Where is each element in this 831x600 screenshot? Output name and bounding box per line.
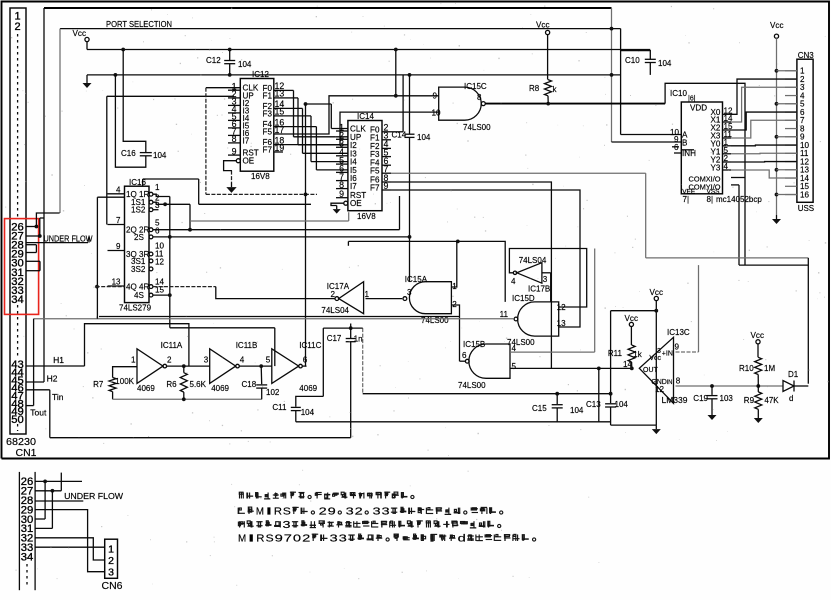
svg-text:d: d — [789, 394, 793, 403]
svg-text:1n: 1n — [354, 335, 363, 344]
svg-text:16V8: 16V8 — [251, 172, 270, 181]
svg-text:IC14: IC14 — [357, 112, 374, 121]
svg-text:1: 1 — [131, 356, 136, 365]
svg-text:H1: H1 — [53, 355, 64, 365]
svg-text:Vcc: Vcc — [751, 331, 765, 340]
svg-text:6: 6 — [674, 143, 679, 152]
svg-text:CN1: CN1 — [16, 448, 37, 459]
svg-text:R7: R7 — [93, 380, 104, 389]
svg-text:1k: 1k — [633, 350, 642, 359]
svg-text:104: 104 — [238, 60, 252, 69]
svg-text:M: M — [238, 533, 246, 545]
svg-text:Vcc: Vcc — [649, 355, 661, 362]
svg-text:8: 8 — [477, 93, 482, 102]
svg-text:74LS04: 74LS04 — [321, 306, 349, 315]
svg-text:74LS04: 74LS04 — [519, 256, 547, 265]
svg-text:2: 2 — [355, 506, 363, 518]
svg-text:9: 9 — [116, 242, 121, 251]
svg-text:3: 3 — [382, 506, 390, 518]
svg-text:Vcc: Vcc — [650, 288, 664, 297]
svg-text:R10: R10 — [739, 364, 754, 373]
svg-text:3: 3 — [204, 356, 209, 365]
svg-text:104: 104 — [615, 400, 629, 409]
svg-text:16: 16 — [800, 190, 810, 199]
svg-text:1M: 1M — [764, 364, 775, 373]
svg-text:C10: C10 — [625, 56, 640, 65]
svg-text:4069: 4069 — [211, 384, 229, 393]
svg-text:3: 3 — [407, 288, 412, 297]
svg-text:3: 3 — [283, 519, 291, 531]
svg-text:d: d — [458, 533, 466, 545]
svg-text:+IN: +IN — [662, 351, 673, 358]
svg-text:1: 1 — [155, 183, 160, 192]
svg-text:50: 50 — [11, 414, 24, 426]
svg-text:4: 4 — [511, 277, 516, 286]
svg-text:3: 3 — [339, 533, 347, 545]
svg-text:3: 3 — [346, 506, 354, 518]
svg-text:S: S — [266, 533, 274, 545]
svg-text:9: 9 — [432, 92, 437, 101]
svg-text:LM339: LM339 — [662, 395, 688, 405]
svg-text:D1: D1 — [788, 370, 799, 379]
svg-text:C18: C18 — [242, 380, 257, 389]
svg-text:34: 34 — [21, 551, 34, 563]
svg-text:IC16: IC16 — [129, 178, 146, 187]
svg-text:47K: 47K — [764, 396, 779, 405]
svg-text:F5: F5 — [370, 167, 380, 176]
svg-text:2: 2 — [108, 555, 114, 567]
svg-text:5.6K: 5.6K — [190, 380, 207, 389]
svg-text:1: 1 — [108, 544, 114, 556]
svg-text:R: R — [256, 533, 265, 545]
svg-text:H2: H2 — [47, 374, 58, 384]
svg-text:7: 7 — [284, 533, 292, 545]
svg-text:7: 7 — [116, 216, 121, 225]
svg-text:2S: 2S — [134, 233, 145, 242]
svg-text:6: 6 — [155, 227, 160, 236]
svg-text:IC12: IC12 — [252, 70, 269, 79]
svg-text:IC17B: IC17B — [528, 285, 550, 294]
svg-text:OE: OE — [243, 157, 255, 166]
svg-text:1S2: 1S2 — [131, 206, 146, 215]
svg-text:OE: OE — [350, 199, 362, 208]
svg-text:VDD: VDD — [690, 104, 707, 113]
svg-text:0: 0 — [293, 533, 301, 545]
svg-text:R: R — [274, 506, 283, 518]
svg-text:3: 3 — [657, 348, 661, 355]
svg-text:102: 102 — [266, 388, 280, 397]
svg-text:IC13C: IC13C — [667, 328, 690, 337]
svg-text:IN: IN — [667, 380, 673, 386]
svg-text:6: 6 — [303, 356, 308, 365]
svg-text:5: 5 — [512, 362, 517, 371]
svg-text:Tin: Tin — [52, 392, 64, 402]
svg-text:F3: F3 — [263, 109, 273, 118]
svg-text:2: 2 — [167, 356, 172, 365]
svg-text:104: 104 — [570, 406, 584, 415]
svg-text:C19: C19 — [693, 394, 708, 403]
svg-text:6: 6 — [462, 351, 467, 360]
svg-text:C12: C12 — [206, 56, 221, 65]
svg-text:4: 4 — [116, 185, 121, 194]
svg-text:13: 13 — [557, 319, 567, 328]
svg-text:3: 3 — [543, 275, 548, 284]
svg-text:IC15C: IC15C — [464, 82, 487, 91]
svg-text:Vcc: Vcc — [73, 29, 87, 38]
svg-text:1: 1 — [365, 290, 370, 299]
svg-text:104: 104 — [153, 151, 167, 160]
svg-text:9: 9 — [675, 343, 680, 352]
svg-text:5: 5 — [266, 356, 271, 365]
svg-text:I7: I7 — [350, 182, 357, 191]
svg-text:F7: F7 — [370, 184, 380, 193]
svg-text:PORT SELECTION: PORT SELECTION — [106, 20, 172, 29]
svg-text:UNDER FLOW: UNDER FLOW — [64, 492, 123, 501]
svg-text:F1: F1 — [263, 91, 273, 100]
svg-text:IC10: IC10 — [670, 89, 687, 98]
svg-text:F7: F7 — [263, 146, 273, 155]
svg-text:Tout: Tout — [30, 408, 47, 418]
svg-text:IC15D: IC15D — [512, 294, 535, 303]
svg-text:IC15B: IC15B — [463, 340, 485, 349]
svg-text:34: 34 — [11, 294, 24, 306]
svg-text:2: 2 — [319, 506, 327, 518]
svg-text:12: 12 — [557, 303, 567, 312]
svg-text:13: 13 — [112, 278, 121, 287]
svg-text:Vcc: Vcc — [536, 21, 550, 30]
svg-text:M: M — [256, 506, 264, 518]
svg-text:Vcc: Vcc — [770, 21, 784, 30]
svg-text:C15: C15 — [532, 404, 547, 413]
svg-text:F5: F5 — [263, 128, 273, 137]
svg-text:13: 13 — [275, 89, 285, 99]
svg-text:3S2: 3S2 — [131, 265, 146, 274]
svg-text:IC11A: IC11A — [161, 341, 183, 350]
svg-text:I: I — [247, 533, 255, 545]
svg-text:R9: R9 — [744, 396, 755, 405]
svg-text:100K: 100K — [115, 377, 134, 386]
svg-text:74LS279: 74LS279 — [119, 304, 152, 313]
svg-text:12: 12 — [155, 258, 165, 267]
svg-text:4: 4 — [240, 356, 245, 365]
svg-text:16V8: 16V8 — [357, 212, 376, 221]
svg-text:R6: R6 — [166, 380, 177, 389]
svg-text:74LS00: 74LS00 — [458, 381, 486, 390]
svg-text:104: 104 — [301, 408, 315, 417]
svg-text:B: B — [682, 139, 687, 148]
svg-text:7|: 7| — [683, 195, 690, 204]
svg-text:S: S — [283, 506, 291, 518]
svg-text:9: 9 — [328, 506, 336, 518]
svg-text:CN6: CN6 — [102, 581, 123, 592]
svg-text:R8: R8 — [529, 84, 540, 93]
svg-text:USS: USS — [798, 204, 814, 213]
svg-text:4069: 4069 — [299, 384, 317, 393]
svg-text:104: 104 — [417, 133, 431, 142]
svg-text:|6|: |6| — [688, 96, 696, 103]
svg-text:C16: C16 — [121, 149, 136, 158]
svg-text:19: 19 — [275, 143, 285, 153]
svg-text:I: I — [265, 506, 273, 518]
svg-text:4S: 4S — [134, 291, 145, 300]
svg-text:CN3: CN3 — [798, 51, 815, 60]
svg-text:15: 15 — [275, 107, 285, 117]
svg-text:R11: R11 — [608, 349, 623, 358]
svg-text:I7: I7 — [243, 136, 250, 145]
svg-text:3: 3 — [330, 533, 338, 545]
svg-text:IC11C: IC11C — [299, 341, 321, 350]
svg-text:Y3: Y3 — [711, 164, 721, 173]
svg-text:IC11B: IC11B — [236, 341, 258, 350]
svg-text:8|: 8| — [707, 195, 714, 204]
svg-text:74LS00: 74LS00 — [421, 316, 449, 325]
svg-text:11: 11 — [500, 310, 509, 319]
svg-text:3: 3 — [373, 506, 381, 518]
svg-text:10: 10 — [431, 108, 441, 117]
svg-text:3: 3 — [108, 567, 114, 579]
svg-text:9: 9 — [384, 181, 389, 191]
svg-text:68230: 68230 — [6, 437, 36, 448]
svg-text:C17: C17 — [327, 334, 342, 343]
svg-text:104: 104 — [658, 59, 672, 68]
svg-text:8: 8 — [676, 377, 681, 386]
svg-text:2: 2 — [331, 290, 336, 299]
svg-text:17: 17 — [275, 125, 285, 135]
svg-text:9: 9 — [275, 533, 283, 545]
svg-text:4069: 4069 — [137, 384, 155, 393]
svg-text:103: 103 — [720, 394, 734, 403]
svg-text:2: 2 — [14, 21, 20, 33]
svg-text:2: 2 — [302, 533, 310, 545]
svg-text:Vcc: Vcc — [625, 314, 639, 323]
svg-text:IC15A: IC15A — [405, 275, 428, 284]
svg-text:74LS00: 74LS00 — [463, 123, 491, 132]
svg-text:C11: C11 — [272, 403, 287, 412]
